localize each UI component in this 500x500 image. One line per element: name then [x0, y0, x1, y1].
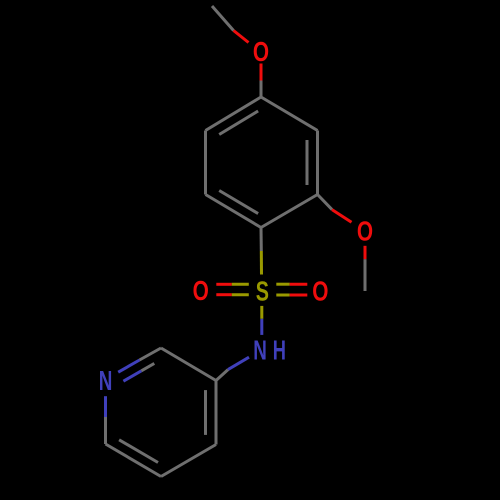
wire benzene C5-C6 bond [204, 131, 207, 195]
wire pyridine C3-C4 bond [215, 381, 218, 445]
wire S=O right double bond upper line [276, 283, 307, 286]
wire benzene C2-C3 bond [316, 131, 319, 195]
svg-text:N: N [99, 365, 113, 396]
wire pyridine C4-C5 bond [161, 445, 216, 477]
svg-text:O: O [357, 215, 373, 246]
wire N-C3' bond [216, 357, 249, 380]
wire pyridine C3=C4 inner double-bond line [204, 390, 207, 435]
wire pyridine C2-C3 bond [161, 348, 216, 381]
svg-text:S: S [256, 275, 269, 306]
wire pyridine N1=C2 bond [118, 348, 161, 372]
wire S-N bond [260, 306, 263, 335]
wire benzene C6=C1 inner double-bond line [219, 191, 258, 214]
wire S=O right double bond lower line [276, 294, 307, 297]
wire C1-S bond [260, 228, 264, 275]
wire S=O left double bond upper line [216, 283, 249, 286]
wire S=O left double bond lower line [216, 293, 249, 296]
wire pyridine C5=C6 inner double-bond line [119, 440, 158, 463]
svg-text:O: O [312, 275, 328, 306]
wire C2-O2 bond [318, 195, 352, 223]
wire benzene C2=C3 inner double-bond line [306, 140, 309, 185]
svg-text:H: H [273, 335, 286, 366]
wire pyridine N1=C2 inner double-bond line [123, 363, 154, 381]
wire pyridine C5-C6 bond [106, 444, 162, 477]
wire benzene C4=C5 inner double-bond line [219, 111, 258, 135]
svg-text:N: N [253, 335, 267, 366]
wire pyridine C6-N1 bond [104, 396, 107, 444]
wire benzene C6-C1 bond [206, 195, 262, 228]
wire O2-CH3 methyl bond [364, 246, 367, 291]
svg-text:O: O [253, 36, 269, 67]
wire benzene C1-C2 bond [261, 195, 318, 228]
wire benzene C4-C5 bond [206, 97, 262, 131]
wire O1-C4 bond [260, 64, 263, 98]
svg-text:O: O [193, 275, 209, 306]
wire benzene C3-C4 bond [261, 97, 318, 131]
wire O1-CH3 methyl bond [212, 6, 249, 43]
